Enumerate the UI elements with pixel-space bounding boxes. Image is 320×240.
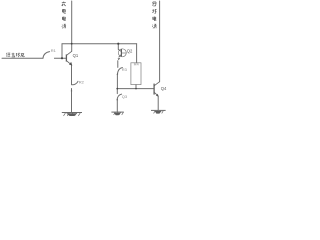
transistor Q2 — [118, 49, 126, 58]
junction node at Q1 base — [61, 57, 63, 59]
svg-text:R3: R3 — [122, 67, 128, 72]
wire: starting supply vertical line — [159, 1, 161, 82]
svg-text:R1: R1 — [51, 48, 57, 53]
switch R3 blade arc — [118, 68, 123, 75]
resistor R4 box — [131, 63, 141, 85]
wire: middle branch collector drop to Q2 — [117, 44, 119, 50]
transistor Q4 — [154, 82, 160, 96]
svg-text:R2: R2 — [79, 79, 85, 84]
junction node middle branch on base bus — [116, 88, 118, 90]
junction node middle branch on feed bus — [117, 43, 119, 45]
switch R1 blade arc — [43, 52, 50, 59]
switch R1 contact tick — [54, 58, 56, 59]
wire: charging supply vertical line — [71, 1, 73, 51]
wire: Q1 emitter down-lead — [71, 65, 73, 85]
svg-text:R4: R4 — [134, 61, 140, 66]
wire: right drop from feed bus to resistor R4 box — [136, 44, 138, 63]
wire: Q4 emitter to ground — [157, 96, 159, 110]
wire: Q1 emitter path to ground — [71, 89, 73, 113]
label 启动电源 (starting supply), vertical — [152, 2, 156, 29]
junction node R4 stub on base bus — [135, 88, 137, 90]
transistor Q1 — [66, 51, 71, 64]
ground symbol below Q1 emitter — [62, 113, 82, 116]
switch R2 blade arc — [72, 81, 78, 84]
wire: control signal input line — [2, 57, 43, 59]
switch R3 contact tick — [117, 72, 119, 74]
junction node supply/feed crossing — [71, 43, 73, 45]
wire: middle branch to ground — [116, 100, 118, 112]
ground symbol below middle branch — [111, 112, 123, 115]
wire: resistor R4 bottom stub to base bus — [135, 85, 137, 89]
wire: Q2 emitter down-lead — [117, 61, 119, 68]
switch Q3 blade arc — [117, 94, 122, 100]
label 充电电源 (charging supply), vertical — [62, 1, 66, 28]
svg-text:Q3: Q3 — [122, 94, 128, 99]
wire: stub below base bus node — [116, 89, 118, 94]
label 控制信号 (control signal), horizontal — [6, 53, 24, 57]
wire: signal line from switch R1 to Q1 base — [55, 57, 67, 59]
svg-text:Q2: Q2 — [127, 48, 133, 53]
svg-text:Q4: Q4 — [161, 86, 167, 91]
wire: left drop from feed bus to Q1 base node — [61, 44, 63, 59]
wire: horizontal base bus to Q4 — [117, 88, 154, 90]
wire: middle branch down to node on base bus — [116, 74, 118, 88]
svg-text:Q1: Q1 — [73, 53, 79, 58]
switch R2 contact tick — [71, 89, 73, 92]
switch Q3 contact tick — [117, 98, 119, 101]
ground symbol below Q4 emitter — [151, 110, 166, 113]
wire: horizontal feed bus from charging supply — [62, 43, 137, 45]
